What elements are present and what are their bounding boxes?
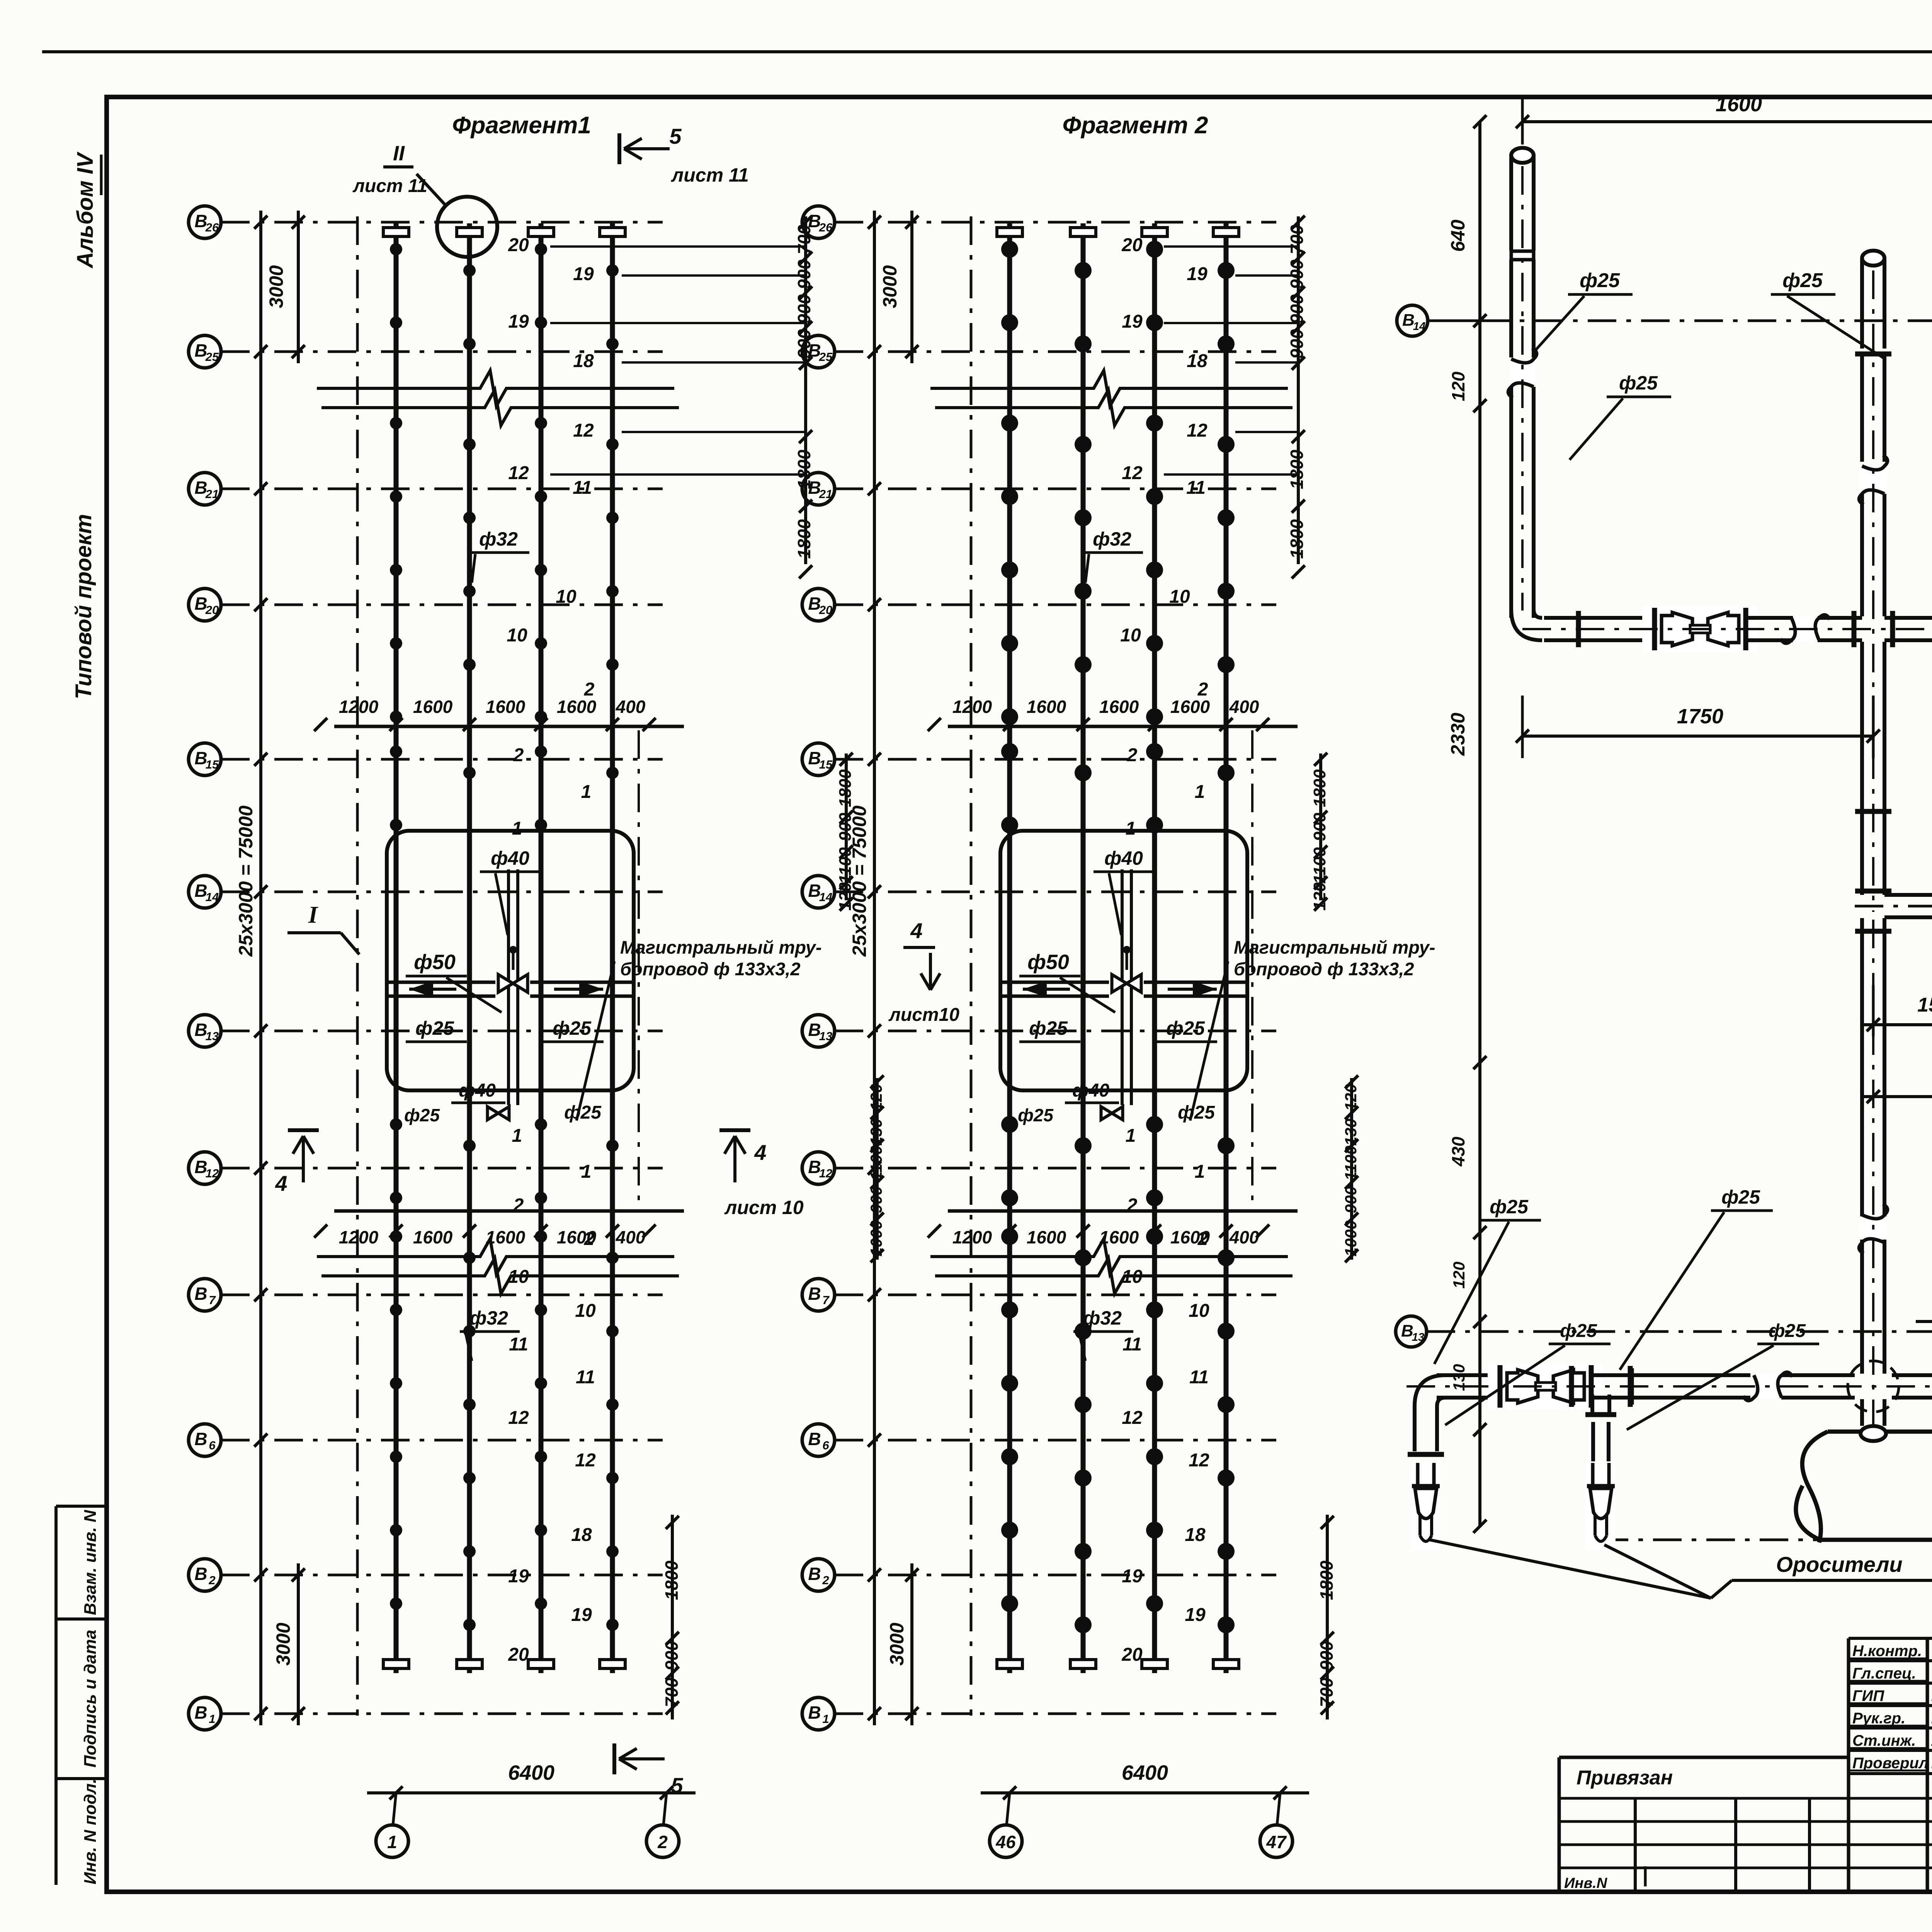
- svg-text:120: 120: [1450, 1262, 1468, 1289]
- svg-text:ф25: ф25: [1769, 1321, 1806, 1341]
- svg-text:Подпись и дата: Подпись и дата: [81, 1630, 100, 1768]
- svg-text:Взам. инв. N: Взам. инв. N: [81, 1510, 100, 1615]
- svg-text:900: 900: [794, 259, 814, 289]
- svg-text:ф25: ф25: [1490, 1196, 1529, 1218]
- svg-text:ф25: ф25: [564, 1102, 602, 1123]
- svg-text:Рук.гр.: Рук.гр.: [1852, 1710, 1905, 1727]
- svg-text:900: 900: [1316, 1641, 1337, 1670]
- svg-text:400: 400: [1229, 697, 1259, 717]
- svg-text:1600: 1600: [1099, 697, 1139, 717]
- svg-text:10: 10: [1169, 587, 1190, 607]
- svg-text:ГИП: ГИП: [1852, 1687, 1884, 1704]
- svg-text:Магистральный тру-: Магистральный тру-: [620, 937, 822, 957]
- svg-text:700: 700: [1287, 224, 1307, 254]
- svg-text:6400: 6400: [508, 1761, 554, 1784]
- svg-text:10: 10: [1120, 625, 1141, 646]
- svg-text:ф25: ф25: [1580, 269, 1620, 292]
- svg-text:ф25: ф25: [1029, 1017, 1068, 1039]
- svg-text:400: 400: [616, 1227, 646, 1247]
- svg-text:4: 4: [275, 1171, 287, 1196]
- svg-text:ф40: ф40: [459, 1080, 496, 1101]
- svg-text:2: 2: [657, 1832, 668, 1852]
- svg-text:Проверил: Проверил: [1852, 1755, 1929, 1772]
- svg-text:13: 13: [1412, 1331, 1424, 1344]
- svg-text:20: 20: [508, 235, 529, 255]
- svg-text:ф25: ф25: [415, 1017, 454, 1039]
- svg-text:1750: 1750: [1677, 705, 1723, 728]
- svg-text:19: 19: [508, 1566, 529, 1587]
- svg-text:1600: 1600: [486, 1227, 526, 1247]
- svg-text:ф25: ф25: [1782, 269, 1823, 292]
- svg-text:46: 46: [995, 1832, 1016, 1852]
- svg-text:6400: 6400: [1122, 1761, 1168, 1784]
- svg-text:2: 2: [513, 1195, 524, 1216]
- svg-text:700: 700: [1316, 1677, 1337, 1707]
- svg-text:2: 2: [208, 1573, 215, 1587]
- svg-text:20: 20: [205, 603, 219, 617]
- svg-text:1: 1: [1195, 782, 1205, 802]
- svg-text:1600: 1600: [1027, 1227, 1066, 1247]
- svg-text:2: 2: [1197, 1229, 1208, 1249]
- svg-text:1200: 1200: [952, 697, 992, 717]
- svg-text:14: 14: [1413, 320, 1425, 333]
- svg-text:В: В: [194, 1564, 207, 1584]
- svg-text:ф25: ф25: [1166, 1017, 1205, 1039]
- svg-text:3000: 3000: [272, 1622, 294, 1665]
- svg-text:15: 15: [819, 758, 833, 771]
- svg-text:47: 47: [1266, 1832, 1287, 1852]
- svg-text:1: 1: [822, 1712, 829, 1726]
- svg-text:В: В: [194, 1429, 207, 1449]
- svg-text:1200: 1200: [339, 1227, 379, 1247]
- svg-text:ф40: ф40: [491, 847, 529, 869]
- svg-text:400: 400: [616, 697, 646, 717]
- svg-text:7: 7: [209, 1293, 216, 1307]
- svg-text:21: 21: [819, 487, 832, 501]
- svg-text:1: 1: [209, 1712, 215, 1726]
- svg-text:1800: 1800: [1287, 449, 1307, 489]
- svg-text:14: 14: [819, 890, 832, 904]
- svg-text:Ст.инж.: Ст.инж.: [1852, 1732, 1916, 1749]
- svg-text:10: 10: [556, 587, 577, 607]
- svg-text:18: 18: [1185, 1525, 1206, 1545]
- svg-text:2: 2: [1127, 745, 1138, 765]
- svg-text:1: 1: [581, 782, 592, 802]
- svg-text:15: 15: [206, 758, 219, 771]
- svg-text:Копировал Муратова: Копировал Муратова: [1863, 1930, 1932, 1932]
- svg-text:ф32: ф32: [479, 528, 518, 550]
- svg-text:900: 900: [662, 1641, 682, 1670]
- svg-text:ф25: ф25: [1721, 1186, 1760, 1208]
- svg-text:1800: 1800: [1316, 1560, 1337, 1600]
- svg-text:2: 2: [1127, 1195, 1138, 1216]
- svg-text:1800: 1800: [662, 1560, 682, 1600]
- svg-text:14: 14: [206, 890, 219, 904]
- svg-text:1: 1: [1195, 1162, 1205, 1182]
- svg-text:25х3000 = 75000: 25х3000 = 75000: [235, 805, 257, 957]
- svg-text:ф50: ф50: [1027, 951, 1069, 974]
- svg-text:лист 11: лист 11: [671, 164, 749, 186]
- svg-text:11: 11: [1189, 1367, 1209, 1388]
- svg-text:ф32: ф32: [1083, 1307, 1122, 1329]
- svg-text:120: 120: [1448, 371, 1468, 401]
- svg-text:ф40: ф40: [1104, 847, 1143, 869]
- svg-text:4: 4: [910, 918, 922, 943]
- svg-text:1600: 1600: [413, 697, 453, 717]
- svg-text:В: В: [808, 1702, 821, 1723]
- svg-text:1: 1: [387, 1832, 397, 1852]
- svg-text:10: 10: [1122, 1267, 1143, 1287]
- svg-text:25: 25: [819, 350, 833, 364]
- svg-text:6: 6: [822, 1439, 829, 1452]
- svg-text:1800: 1800: [1287, 519, 1307, 559]
- svg-text:1800: 1800: [836, 769, 855, 807]
- svg-text:20: 20: [819, 603, 832, 617]
- svg-text:В: В: [808, 1284, 821, 1304]
- svg-text:Фрагмент1: Фрагмент1: [452, 112, 591, 139]
- svg-text:4: 4: [754, 1140, 766, 1165]
- svg-text:Инв.N: Инв.N: [1564, 1875, 1608, 1891]
- svg-text:Гл.спец.: Гл.спец.: [1852, 1665, 1916, 1682]
- svg-text:10: 10: [575, 1301, 596, 1321]
- svg-text:10: 10: [1189, 1301, 1209, 1321]
- svg-text:В: В: [808, 1429, 821, 1449]
- svg-text:12: 12: [1189, 1450, 1209, 1471]
- svg-text:1600: 1600: [486, 697, 526, 717]
- svg-text:25: 25: [205, 350, 219, 364]
- svg-text:5: 5: [669, 124, 682, 148]
- svg-text:19: 19: [1187, 264, 1207, 284]
- svg-text:ф25: ф25: [404, 1105, 440, 1125]
- svg-text:19: 19: [1122, 311, 1143, 332]
- svg-text:В: В: [194, 1702, 207, 1723]
- svg-text:12: 12: [508, 1408, 529, 1428]
- svg-text:1600: 1600: [1027, 697, 1066, 717]
- svg-text:1200: 1200: [952, 1227, 992, 1247]
- svg-text:3000: 3000: [879, 265, 901, 308]
- svg-text:10: 10: [507, 625, 527, 646]
- svg-text:бопровод ф 133х3,2: бопровод ф 133х3,2: [1234, 959, 1414, 979]
- svg-text:В: В: [808, 1564, 821, 1584]
- svg-text:ф25: ф25: [1018, 1105, 1054, 1125]
- svg-text:11: 11: [576, 1367, 595, 1388]
- svg-text:1: 1: [1126, 1126, 1136, 1146]
- svg-text:2: 2: [584, 679, 595, 700]
- svg-text:лист10: лист10: [888, 1005, 959, 1025]
- svg-text:1: 1: [512, 818, 522, 839]
- svg-text:12: 12: [1122, 463, 1143, 483]
- svg-text:ф25: ф25: [1560, 1321, 1597, 1341]
- svg-text:1200: 1200: [339, 697, 379, 717]
- svg-text:2330: 2330: [1447, 713, 1469, 756]
- svg-text:19: 19: [571, 1605, 592, 1625]
- svg-text:12: 12: [508, 463, 529, 483]
- svg-text:Привязан: Привязан: [1577, 1767, 1673, 1789]
- svg-text:1600: 1600: [413, 1227, 453, 1247]
- svg-text:18: 18: [571, 1525, 592, 1545]
- svg-text:11: 11: [1122, 1334, 1142, 1355]
- svg-text:1: 1: [512, 1126, 522, 1146]
- svg-text:10: 10: [508, 1267, 529, 1287]
- svg-text:900: 900: [1287, 259, 1307, 289]
- svg-text:900: 900: [867, 1186, 885, 1213]
- svg-text:26: 26: [819, 221, 833, 234]
- svg-text:19: 19: [1122, 1566, 1143, 1587]
- svg-text:1600: 1600: [1716, 93, 1762, 116]
- svg-text:900: 900: [1287, 329, 1307, 359]
- svg-text:ф25: ф25: [1178, 1102, 1215, 1123]
- svg-text:Типовой проект: Типовой проект: [71, 514, 96, 699]
- svg-text:II: II: [393, 142, 405, 165]
- svg-text:1: 1: [1126, 818, 1136, 839]
- svg-text:19: 19: [1185, 1605, 1206, 1625]
- svg-text:Альбом IV: Альбом IV: [73, 151, 98, 269]
- svg-text:Фрагмент 2: Фрагмент 2: [1063, 112, 1208, 139]
- svg-text:2: 2: [584, 1229, 595, 1249]
- svg-text:19: 19: [573, 264, 594, 284]
- svg-text:13: 13: [819, 1029, 832, 1043]
- svg-text:лист 11: лист 11: [352, 176, 427, 196]
- svg-text:ф40: ф40: [1072, 1080, 1109, 1101]
- svg-text:1800: 1800: [1310, 769, 1329, 807]
- svg-text:12: 12: [1122, 1408, 1143, 1428]
- svg-text:Оросители: Оросители: [1776, 1552, 1902, 1577]
- svg-text:ф32: ф32: [469, 1307, 508, 1329]
- svg-text:2: 2: [513, 745, 524, 765]
- svg-text:бопровод ф 133х3,2: бопровод ф 133х3,2: [620, 959, 801, 979]
- svg-text:7: 7: [822, 1293, 830, 1307]
- svg-text:Магистральный тру-: Магистральный тру-: [1234, 937, 1435, 957]
- svg-text:11: 11: [573, 478, 592, 498]
- svg-text:12: 12: [206, 1167, 219, 1180]
- svg-text:20: 20: [1121, 235, 1143, 255]
- svg-text:5: 5: [671, 1773, 683, 1798]
- svg-text:2: 2: [822, 1573, 829, 1587]
- svg-text:20: 20: [1121, 1645, 1143, 1665]
- svg-text:400: 400: [1229, 1227, 1259, 1247]
- svg-text:ф32: ф32: [1093, 528, 1131, 550]
- svg-text:ф25: ф25: [1619, 372, 1658, 394]
- svg-text:12: 12: [1187, 420, 1207, 441]
- svg-text:3000: 3000: [886, 1622, 908, 1665]
- svg-text:900: 900: [1342, 1186, 1360, 1213]
- svg-text:I: I: [308, 902, 318, 928]
- svg-text:1600: 1600: [1099, 1227, 1139, 1247]
- svg-text:лист 10: лист 10: [724, 1197, 804, 1218]
- svg-text:11: 11: [1186, 478, 1206, 498]
- svg-text:1: 1: [581, 1162, 592, 1182]
- svg-text:700: 700: [662, 1677, 682, 1707]
- svg-text:6: 6: [209, 1439, 216, 1452]
- svg-text:21: 21: [205, 487, 219, 501]
- svg-text:1500: 1500: [1917, 994, 1932, 1016]
- svg-text:ф50: ф50: [414, 951, 456, 974]
- svg-text:Н.контр.: Н.контр.: [1852, 1643, 1922, 1660]
- svg-text:900: 900: [794, 294, 814, 324]
- svg-text:20: 20: [508, 1645, 529, 1665]
- svg-text:12: 12: [575, 1450, 596, 1471]
- svg-text:18: 18: [573, 351, 594, 371]
- svg-text:12: 12: [819, 1167, 832, 1180]
- svg-text:18: 18: [1187, 351, 1207, 371]
- svg-text:19: 19: [508, 311, 529, 332]
- svg-text:12: 12: [573, 420, 594, 441]
- svg-text:2: 2: [1197, 679, 1208, 700]
- svg-text:900: 900: [1287, 294, 1307, 324]
- svg-text:1800: 1800: [794, 519, 814, 559]
- svg-text:В: В: [194, 1284, 207, 1304]
- svg-text:26: 26: [205, 221, 219, 234]
- svg-text:13: 13: [206, 1029, 219, 1043]
- svg-text:640: 640: [1447, 219, 1469, 252]
- svg-text:ф25: ф25: [553, 1017, 592, 1039]
- svg-text:Инв. N подл.: Инв. N подл.: [81, 1779, 100, 1884]
- svg-text:25х3000 = 75000: 25х3000 = 75000: [849, 805, 870, 957]
- svg-text:3000: 3000: [265, 265, 287, 308]
- svg-text:11: 11: [509, 1334, 528, 1355]
- svg-text:430: 430: [1448, 1136, 1468, 1167]
